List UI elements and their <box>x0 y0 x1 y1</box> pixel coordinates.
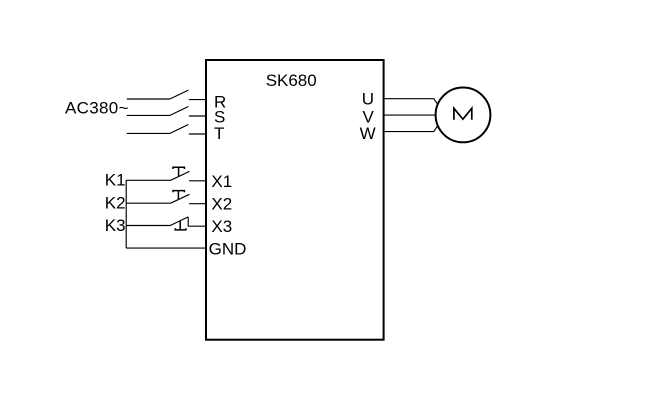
svg-text:X2: X2 <box>211 195 232 214</box>
svg-text:T: T <box>214 124 224 143</box>
svg-text:AC380~: AC380~ <box>65 99 129 118</box>
svg-text:X1: X1 <box>211 172 232 191</box>
svg-text:SK680: SK680 <box>266 71 317 90</box>
svg-text:U: U <box>362 90 374 109</box>
svg-text:K2: K2 <box>105 194 126 213</box>
svg-text:K1: K1 <box>105 171 126 190</box>
svg-text:GND: GND <box>209 240 247 259</box>
svg-text:K3: K3 <box>105 216 126 235</box>
svg-text:W: W <box>360 124 376 143</box>
svg-text:X3: X3 <box>211 217 232 236</box>
